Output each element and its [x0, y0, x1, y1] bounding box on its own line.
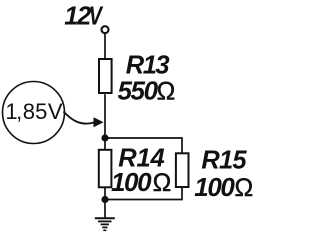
svg-text:12: 12: [64, 3, 91, 31]
terminal (supply node): [102, 26, 109, 33]
resistor R14: [99, 150, 112, 188]
svg-text:100: 100: [194, 172, 235, 202]
wire R14 bottom to node B: [104, 188, 106, 200]
resistor R15: [176, 153, 189, 187]
svg-text:Ω: Ω: [157, 77, 176, 105]
wire R13 to node A: [104, 94, 106, 150]
ground symbol: [95, 218, 115, 230]
svg-text:Ω: Ω: [153, 169, 172, 197]
svg-text:550: 550: [118, 75, 159, 105]
svg-text:V: V: [89, 3, 104, 31]
node B junction dot: [101, 196, 108, 203]
wire node B to R15 bottom: [105, 187, 182, 200]
ground stem: [104, 200, 106, 218]
svg-text:R15: R15: [201, 147, 247, 175]
callout circle 1,85V: [3, 82, 65, 144]
callout arrow to node A: [64, 112, 95, 124]
svg-text:Ω: Ω: [235, 174, 254, 202]
svg-text:1,85V: 1,85V: [5, 99, 63, 124]
wire terminal to R13: [104, 34, 106, 59]
resistor R13: [99, 59, 112, 93]
svg-text:100: 100: [111, 167, 152, 197]
wire node A to R15 top: [105, 138, 182, 153]
node A junction dot: [101, 134, 108, 141]
